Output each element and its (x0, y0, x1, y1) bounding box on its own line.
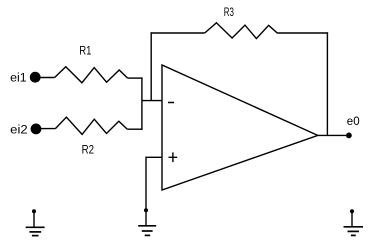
ground (left, below ei1) (26, 209, 45, 235)
wire R1 to summing node (128, 77, 143, 79)
wire R2 to summing node (127, 128, 142, 130)
wire non-inverting input (146, 156, 162, 158)
svg-text:e0: e0 (347, 114, 360, 128)
node summing junction (vertical bar joining R1 and R2) (141, 77, 143, 129)
node ei1 (input terminal dot) (30, 72, 41, 83)
svg-text:ei1: ei1 (10, 71, 27, 85)
op-amp non-inverting input marker (+) (169, 152, 178, 162)
wire ei1 to R1 (38, 77, 55, 79)
op-amp U1 (triangle) (162, 65, 318, 190)
wire top feedback left segment (151, 32, 205, 34)
wire summing node to op-amp inverting input (142, 100, 162, 102)
wire feedback left vertical drop (150, 32, 152, 100)
node e0 (output terminal dot) (346, 133, 352, 139)
wire feedback right vertical drop (326, 32, 328, 135)
ground (middle, non-inverting input) (138, 208, 156, 235)
wire ei2 to R2 (39, 128, 56, 130)
svg-text:R2: R2 (82, 142, 94, 156)
resistor R1 (55, 67, 128, 83)
ground (right, below e0) (344, 209, 364, 235)
wire non-inverting input down to ground (145, 157, 147, 226)
op-amp inverting input marker (-) (168, 102, 174, 104)
wire op-amp output (318, 134, 349, 136)
node ei2 (input terminal dot) (31, 123, 42, 134)
svg-text:R1: R1 (79, 44, 91, 58)
resistor R3 (205, 23, 278, 39)
resistor R2 (55, 117, 127, 134)
wire top feedback right segment (278, 32, 329, 34)
svg-text:ei2: ei2 (10, 123, 28, 137)
svg-text:R3: R3 (224, 5, 234, 19)
